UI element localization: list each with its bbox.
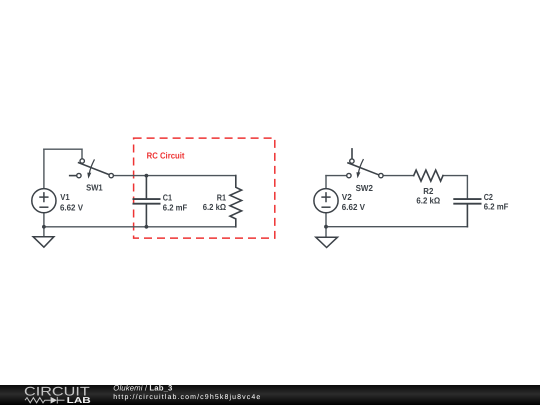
wire down into SW1 top terminal — [81, 149, 83, 158]
node junction V1 ground — [42, 225, 46, 229]
footer bar — [0, 385, 540, 405]
svg-text:SW2: SW2 — [356, 183, 373, 193]
wire bottom rail circuit 1 — [44, 226, 236, 228]
wire V1 bottom to ground — [43, 213, 45, 237]
capacitor C2 — [454, 199, 480, 227]
svg-text:6.62 V: 6.62 V — [60, 202, 83, 212]
ground symbol circuit 2 — [316, 237, 338, 247]
svg-text:6.62 V: 6.62 V — [342, 202, 365, 212]
svg-text:6.2 kΩ: 6.2 kΩ — [203, 202, 226, 212]
node junction top of C1 — [145, 174, 149, 178]
svg-text:C1: C1 — [163, 193, 172, 203]
wire SW2 right terminal to R2 — [383, 175, 414, 177]
voltage source V2 — [314, 189, 338, 213]
svg-text:6.2 mF: 6.2 mF — [163, 202, 187, 212]
logo resistor-diode glyph — [25, 397, 65, 404]
footer url — [113, 393, 261, 401]
svg-text:Olukemi / Lab_3: Olukemi / Lab_3 — [113, 384, 173, 393]
resistor R1 — [230, 176, 242, 227]
wire top horizontal to switch — [44, 148, 82, 150]
svg-text:RC Circuit: RC Circuit — [147, 151, 185, 161]
voltage source V1 — [32, 189, 56, 213]
svg-text:R1: R1 — [217, 192, 226, 202]
wire V2 to SW2 left terminal — [326, 175, 347, 177]
wire V2 bottom to ground — [325, 213, 327, 238]
wire bottom rail circuit 2 — [326, 226, 467, 228]
resistor R2 — [414, 170, 443, 181]
svg-text:C2: C2 — [484, 192, 493, 202]
footer title Olukemi / Lab_3 — [113, 384, 173, 393]
svg-text:6.2 mF: 6.2 mF — [484, 202, 509, 212]
node junction bottom of C1 — [145, 225, 149, 229]
RC Circuit dashed annotation box — [134, 138, 275, 238]
wire V1 top vertical — [43, 149, 45, 189]
logo LAB text — [67, 395, 91, 405]
logo CIRCUIT text — [24, 385, 90, 399]
label RC Circuit — [147, 151, 185, 161]
wire V2 top vertical — [325, 176, 327, 189]
wire SW1 right terminal to RC circuit — [113, 175, 236, 177]
svg-text:http://circuitlab.com/c9h5k8ju: http://circuitlab.com/c9h5k8ju8vc4e — [113, 393, 261, 401]
ground symbol circuit 1 — [33, 237, 54, 248]
switch SW1 — [70, 159, 114, 179]
svg-text:SW1: SW1 — [86, 183, 103, 193]
svg-text:V2: V2 — [342, 192, 352, 202]
switch SW2 — [347, 149, 383, 179]
wire R2 to C2 corner — [443, 176, 467, 199]
svg-text:6.2 kΩ: 6.2 kΩ — [416, 196, 440, 206]
svg-text:R2: R2 — [423, 186, 433, 196]
svg-text:LAB: LAB — [67, 395, 91, 405]
node junction V2 ground — [324, 225, 328, 229]
svg-text:V1: V1 — [60, 192, 70, 202]
capacitor C1 — [133, 176, 159, 227]
